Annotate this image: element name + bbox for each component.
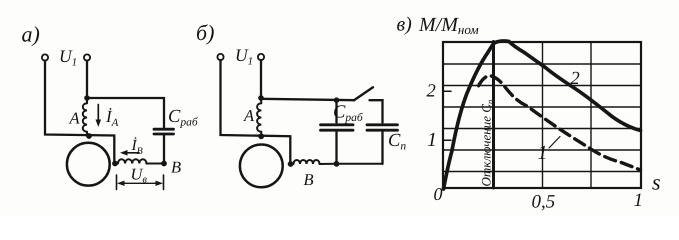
wire to capacitor Crab (87, 98, 164, 128)
svg-text:İА: İА (105, 107, 119, 129)
wire to switch (261, 99, 354, 100)
svg-text:в): в) (397, 14, 413, 36)
wire left: terminal down and along bottom of winding A (45, 61, 114, 164)
winding A (257, 98, 261, 136)
svg-text:İВ: İВ (131, 137, 143, 157)
svg-text:А: А (69, 109, 81, 128)
current arrow IA (97, 105, 99, 123)
svg-text:М/Мном: М/Мном (418, 14, 479, 37)
capacitor Cp stem bottom (381, 131, 383, 164)
svg-text:1: 1 (634, 190, 644, 211)
svg-text:Сраб: Сраб (333, 103, 364, 125)
svg-text:1: 1 (538, 142, 548, 164)
curve 2 (solid) (444, 41, 641, 189)
node bottom of winding A (258, 133, 264, 139)
svg-text:1: 1 (427, 129, 437, 151)
svg-text:А: А (243, 106, 255, 125)
motor (rotor circle) (240, 145, 283, 188)
curve 1 (dashed) (477, 76, 641, 171)
capacitor Crab plates (154, 129, 174, 134)
winding A (stator) (83, 98, 87, 136)
node bottom of Crab (334, 161, 340, 167)
graph frame (443, 42, 641, 188)
node (junction bottom of winding A) (86, 133, 92, 139)
capacitor Crab stem bottom (335, 131, 337, 164)
wire right terminal down (260, 60, 262, 98)
terminal (right) (84, 54, 90, 60)
node top of winding A (258, 95, 264, 101)
wire capacitor to node B (163, 135, 165, 164)
svg-text:Uв: Uв (131, 165, 148, 186)
capacitor Crab stem top (335, 100, 337, 122)
svg-text:Сраб: Сраб (168, 107, 199, 129)
wire left terminal down and bottom (221, 60, 291, 164)
svg-text:2: 2 (571, 69, 580, 89)
terminal (right) (258, 54, 264, 60)
svg-text:0: 0 (434, 184, 443, 204)
terminal (left) (42, 54, 48, 60)
switch blade (354, 87, 373, 100)
capacitor Cp plates (367, 125, 398, 130)
terminal (left) (217, 54, 223, 60)
svg-text:В: В (304, 170, 314, 189)
current arrow IB (124, 152, 139, 154)
svg-text:Отключение Сп: Отключение Сп (479, 99, 496, 186)
capacitor Crab plates (321, 125, 354, 130)
y tick 1 (443, 139, 451, 141)
node B (161, 161, 167, 167)
svg-text:2: 2 (427, 82, 436, 102)
switch fixed contact wire (370, 100, 383, 122)
motor (rotor circle) (67, 143, 110, 186)
node tap of Crab (334, 97, 340, 103)
grid horizontal lines (443, 64, 641, 172)
svg-text:а): а) (22, 22, 40, 47)
svg-text:U1: U1 (235, 45, 253, 68)
svg-text:б): б) (196, 20, 214, 45)
node left of winding B (288, 161, 294, 167)
Cp cutoff vertical line (492, 42, 495, 189)
winding B (118, 159, 164, 163)
svg-text:s: s (652, 170, 661, 195)
svg-text:В: В (171, 158, 181, 177)
node (junction top of winding A) (84, 95, 90, 101)
y tick 2 (443, 90, 451, 92)
node (left of winding B) (112, 161, 118, 167)
svg-text:U1: U1 (59, 46, 77, 69)
wire right terminal down (86, 61, 88, 98)
winding B (294, 160, 383, 164)
svg-text:Сп: Сп (388, 131, 406, 153)
grid vertical lines (543, 42, 592, 188)
leader line for curve 1 label (549, 137, 560, 149)
dimension UB ticks and arrows (117, 175, 164, 190)
svg-text:0,5: 0,5 (532, 192, 556, 213)
